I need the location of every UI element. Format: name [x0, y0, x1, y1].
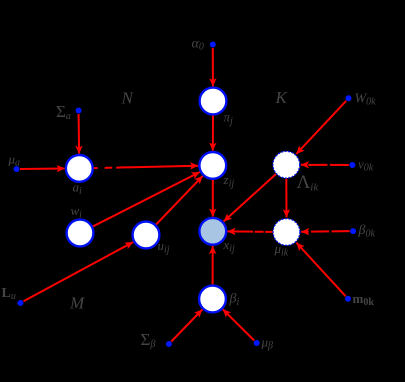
wire Sigma_beta to beta_i — [171, 310, 202, 342]
wire Lambda_ik to mu_ik — [285, 179, 287, 218]
node a_i — [66, 155, 93, 182]
wire beta0k to mu_ik — [301, 230, 350, 233]
node nu0k (point) — [349, 162, 355, 168]
svg-text:M: M — [69, 294, 85, 313]
node x_ij (observed) — [199, 218, 226, 245]
wire pi to zij — [212, 115, 214, 151]
wire mu_beta to beta_i — [223, 309, 254, 340]
node pi_j — [200, 88, 227, 115]
node W0k (point) — [346, 95, 352, 101]
wire mu_a to ai — [20, 168, 65, 171]
wire ai to zij — [93, 166, 198, 168]
node Sigma_beta (point) — [166, 341, 172, 347]
node beta0k (point) — [350, 228, 356, 234]
wire beta_i to xij — [212, 246, 214, 285]
svg-text:N: N — [121, 89, 135, 108]
wire uij to zij — [156, 176, 203, 225]
node z_ij — [199, 152, 226, 179]
wire W0k to Lambda_ik — [296, 101, 346, 154]
wire zij to xij — [212, 179, 214, 216]
wire nu0k to Lambda_ik — [301, 164, 349, 166]
node Sigma_a (point) — [76, 108, 82, 114]
node alpha0 (point) — [210, 42, 216, 48]
wire Lu to uij — [24, 242, 134, 301]
node w_i — [67, 220, 94, 247]
wire Sigma_a to ai — [78, 114, 81, 154]
node Lu (point) — [17, 300, 23, 306]
wire wi to zij — [92, 172, 199, 227]
wire a0 to pi — [212, 48, 214, 86]
node Lambda_ik (dashed) — [273, 151, 300, 178]
wire mu_ik to xij — [227, 230, 272, 233]
node mu_ik (dashed) — [273, 219, 300, 246]
node mu_beta (point) — [254, 340, 260, 346]
node u_ij — [133, 222, 160, 249]
wire Lambda_ik to xij — [224, 174, 276, 222]
node mu_a (point) — [14, 166, 20, 172]
svg-text:K: K — [275, 88, 289, 107]
node m0k (point) — [345, 296, 351, 302]
wire m0k to mu_ik — [296, 243, 345, 297]
node beta_i — [199, 286, 226, 313]
